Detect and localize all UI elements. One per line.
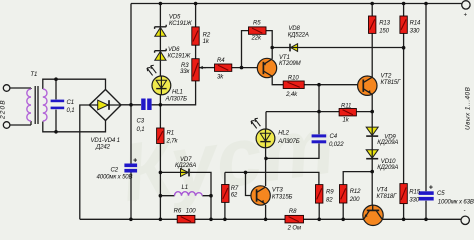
- transistor VT2: [358, 76, 377, 95]
- wire R10 to VT2 base: [304, 84, 357, 86]
- svg-text:HL2: HL2: [278, 131, 289, 137]
- capacitor C1: [51, 100, 65, 110]
- svg-text:+: +: [464, 13, 468, 19]
- wire transformer secondary top to bridge: [43, 79, 106, 89]
- diode VD8: [290, 44, 298, 52]
- svg-text:220В: 220В: [0, 99, 7, 120]
- resistor R15: [400, 184, 407, 204]
- zener VD5: [155, 25, 167, 37]
- wire node x319 down: [266, 85, 319, 159]
- wire VT3 collector: [265, 148, 267, 186]
- svg-text:C1: C1: [67, 100, 74, 106]
- svg-text:VT3: VT3: [272, 188, 283, 194]
- svg-text:R1: R1: [167, 131, 174, 137]
- diode VD7: [181, 169, 190, 177]
- svg-text:HL1: HL1: [172, 90, 183, 96]
- wire R7 bottom: [224, 202, 226, 219]
- svg-text:VT2: VT2: [381, 74, 392, 80]
- resistor R11: [339, 109, 356, 116]
- svg-text:VT4: VT4: [377, 187, 388, 193]
- svg-text:R7: R7: [231, 186, 239, 192]
- capacitor C5: [419, 184, 434, 200]
- svg-text:C2: C2: [111, 168, 119, 174]
- svg-text:R8: R8: [289, 209, 297, 215]
- svg-text:Д242: Д242: [95, 144, 111, 150]
- svg-text:КД522А: КД522А: [288, 32, 309, 38]
- wire R5 branch: [242, 31, 273, 68]
- svg-text:R11: R11: [341, 104, 351, 110]
- resistor R10: [283, 81, 304, 89]
- wire primary stubs: [30, 88, 32, 125]
- wire VD7 row: [160, 172, 211, 219]
- wire left minus column: [80, 105, 90, 219]
- transistor VT1: [257, 58, 276, 77]
- wire R4 to VT1 base: [232, 67, 258, 69]
- svg-text:82: 82: [326, 198, 333, 204]
- svg-text:АЛ307Б: АЛ307Б: [165, 97, 188, 103]
- svg-text:330: 330: [410, 28, 420, 34]
- svg-text:R10: R10: [288, 75, 299, 81]
- svg-text:VD1-VD4 1: VD1-VD4 1: [91, 138, 120, 144]
- resistor R1: [157, 128, 164, 144]
- wire L1 stubs: [160, 195, 211, 197]
- inductor L1: [175, 192, 203, 196]
- LED HL1: [147, 65, 171, 95]
- svg-text:150: 150: [379, 28, 389, 34]
- wire HL2 top row: [266, 112, 339, 129]
- wire VT1 emitter: [271, 48, 273, 59]
- resistor R8: [285, 215, 304, 223]
- svg-text:4000мк x 50В: 4000мк x 50В: [97, 175, 133, 181]
- svg-text:2 Ом: 2 Ом: [287, 226, 302, 232]
- svg-text:VD6: VD6: [168, 47, 180, 53]
- diode VD9: [366, 127, 378, 136]
- wire bottom rail: [80, 218, 461, 220]
- wire R11 to VT2 emitter node: [356, 111, 372, 113]
- svg-text:КТ315Б: КТ315Б: [272, 194, 293, 200]
- wire R12 jog: [343, 172, 372, 220]
- svg-text:33к: 33к: [180, 69, 190, 75]
- svg-text:-: -: [464, 208, 466, 214]
- svg-text:АЛ307Б: АЛ307Б: [277, 139, 300, 145]
- LED HL2: [251, 118, 275, 148]
- resistor R5: [249, 27, 267, 34]
- svg-text:R14: R14: [410, 20, 421, 26]
- svg-text:C4: C4: [330, 134, 338, 140]
- node dots: [54, 2, 428, 221]
- wire VT1 collector to R10: [272, 76, 283, 84]
- svg-text:+: +: [133, 157, 137, 164]
- svg-text:L1: L1: [182, 185, 188, 191]
- wire zener column x160: [159, 4, 161, 220]
- svg-text:КС191Ж: КС191Ж: [168, 54, 191, 60]
- wire R14 R15 column: [403, 4, 405, 220]
- svg-text:КД209А: КД209А: [377, 140, 398, 146]
- transistor VT3: [251, 186, 270, 205]
- resistor R12: [340, 185, 347, 203]
- resistor R2: [192, 27, 199, 45]
- resistor R14: [400, 16, 407, 33]
- svg-text:R6: R6: [174, 208, 182, 214]
- svg-text:0,1: 0,1: [67, 108, 75, 114]
- svg-text:R12: R12: [350, 189, 361, 195]
- capacitor C2: [124, 157, 137, 172]
- resistor R4: [215, 64, 232, 71]
- svg-text:R2: R2: [203, 33, 211, 39]
- resistor R9: [316, 185, 323, 204]
- transistor VT4: [363, 205, 383, 225]
- svg-text:VT1: VT1: [279, 55, 290, 61]
- wire VT3 emitter: [265, 205, 267, 219]
- wire left plus column (C2 column): [130, 4, 132, 220]
- svg-text:62: 62: [231, 193, 238, 199]
- svg-text:КТ818Г: КТ818Г: [377, 194, 398, 200]
- svg-text:КС191Ж: КС191Ж: [169, 21, 192, 27]
- watermark: [116, 99, 340, 219]
- svg-text:VD7: VD7: [180, 157, 192, 163]
- wire VT2 emitter / VD9 VD10 column: [371, 94, 373, 205]
- svg-text:R13: R13: [379, 20, 390, 26]
- terminal output plus: [462, 1, 470, 9]
- svg-text:1000мк x 63В: 1000мк x 63В: [438, 200, 474, 206]
- svg-text:R5: R5: [253, 21, 261, 27]
- wire R2 R3 column: [195, 4, 197, 59]
- wire VD8 row: [272, 47, 403, 49]
- wire input top: [10, 87, 31, 89]
- svg-text:C3: C3: [137, 119, 145, 125]
- svg-text:2,7k: 2,7k: [166, 139, 179, 145]
- svg-text:Uвых 1...40В: Uвых 1...40В: [464, 86, 471, 130]
- wire VT3 base row: [225, 172, 319, 195]
- diode bridge VD1-VD4: [89, 90, 121, 121]
- wire R9 bottom: [318, 203, 320, 219]
- wire bridge out to C3 row: [121, 81, 196, 105]
- svg-text:R9: R9: [326, 189, 334, 195]
- svg-text:R15: R15: [409, 189, 420, 195]
- resistor R6: [177, 215, 195, 223]
- wire R3 wiper to R4: [199, 67, 215, 69]
- svg-text:2,4k: 2,4k: [285, 92, 298, 98]
- wire top rail: [131, 3, 462, 5]
- svg-text:330: 330: [409, 197, 419, 203]
- svg-text:VD8: VD8: [288, 26, 300, 32]
- zener VD6: [155, 49, 167, 61]
- wire VT2 collector / R13 column: [371, 4, 373, 78]
- resistor R7: [222, 185, 229, 203]
- wire transformer secondary bottom to bridge: [43, 121, 106, 132]
- svg-text:КД226А: КД226А: [175, 163, 196, 169]
- svg-text:КД209А: КД209А: [377, 165, 398, 171]
- svg-text:200: 200: [349, 197, 360, 203]
- svg-text:T1: T1: [30, 72, 37, 78]
- svg-text:0,022: 0,022: [329, 142, 344, 148]
- svg-text:100: 100: [186, 208, 196, 214]
- capacitor C3: [141, 99, 151, 111]
- wire output column C5: [425, 4, 427, 220]
- wire input bottom: [10, 124, 31, 126]
- svg-text:+: +: [429, 184, 433, 191]
- svg-text:0,1: 0,1: [137, 127, 145, 133]
- terminal input bottom: [3, 122, 10, 129]
- variable resistor R3: [192, 59, 206, 81]
- transformer T1: [27, 89, 47, 121]
- svg-text:C5: C5: [437, 191, 445, 197]
- capacitor C4: [312, 134, 327, 143]
- wire C1 stubs: [55, 79, 57, 132]
- terminal input top: [3, 85, 10, 92]
- svg-text:22k: 22k: [251, 36, 262, 42]
- svg-text:R4: R4: [217, 58, 225, 64]
- terminal output minus: [461, 216, 469, 224]
- svg-text:R3: R3: [181, 63, 189, 69]
- svg-text:КТ815Г: КТ815Г: [381, 80, 402, 86]
- resistor R13: [369, 16, 376, 33]
- svg-text:КТ209М: КТ209М: [279, 61, 302, 67]
- svg-text:VD5: VD5: [169, 14, 181, 20]
- diode VD10: [366, 150, 378, 159]
